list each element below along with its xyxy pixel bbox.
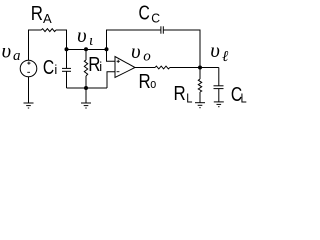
svg-text:o: o (150, 76, 156, 91)
wire C_C riser from input node (107, 30, 161, 50)
wire C_i branch upper (66, 50, 68, 69)
node v_i wire (67, 49, 107, 51)
wire R_A right end down to input node (56, 30, 67, 50)
wire R_i branch lower (85, 76, 87, 88)
op-amp triangle (115, 57, 135, 78)
op-amp - input mark (117, 71, 120, 73)
resistor R_o (155, 66, 170, 69)
svg-text:υ: υ (77, 23, 87, 47)
capacitor C_i (62, 67, 71, 69)
ground (R_L) (195, 103, 205, 108)
svg-text:a: a (13, 48, 21, 64)
source - sign (27, 71, 30, 73)
svg-text:υ: υ (131, 39, 141, 63)
wire R_L to ground (199, 92, 201, 103)
voltage source v_a (20, 60, 37, 77)
resistor R_L (198, 79, 201, 92)
svg-text:R: R (139, 71, 151, 93)
svg-text:o: o (143, 49, 151, 65)
capacitor C_L (214, 85, 224, 87)
svg-text:L: L (186, 91, 192, 106)
node dot R_i top (84, 47, 88, 51)
wire R_o to load node (170, 67, 219, 69)
resistor R_A (41, 29, 56, 32)
svg-text:C: C (139, 3, 150, 25)
svg-text:C: C (151, 11, 160, 26)
node dot v_i at R_A (65, 47, 69, 51)
node dot amp input riser (105, 47, 109, 51)
wire source to ground (28, 77, 30, 103)
svg-text:R: R (174, 83, 186, 105)
svg-text:C: C (43, 57, 54, 79)
wire ground stem (85, 88, 87, 103)
ground (input side) (81, 103, 91, 108)
source + sign (28, 62, 30, 65)
svg-text:ι: ι (89, 33, 93, 49)
node dot ground bus (84, 86, 88, 90)
op-amp + input mark (117, 60, 119, 63)
svg-text:R: R (31, 3, 43, 25)
wire amp + input (107, 50, 116, 62)
wire R_L branch upper (199, 68, 201, 80)
ground (C_L) (214, 102, 224, 107)
wire C_L branch upper (218, 68, 220, 86)
wire C_C to output node (164, 30, 201, 68)
resistor R_i (84, 60, 87, 76)
svg-text:υ: υ (210, 38, 220, 62)
wire amp - input (107, 72, 115, 88)
svg-text:υ: υ (2, 38, 12, 62)
wire R_i branch upper (85, 50, 87, 61)
wire C_L to ground (218, 89, 220, 102)
ground (source) (24, 103, 34, 108)
capacitor C_C (160, 26, 162, 33)
node dot output v_l (198, 66, 202, 70)
svg-text:A: A (43, 11, 52, 26)
wire amp output (135, 67, 155, 69)
svg-text:ℓ: ℓ (222, 49, 228, 65)
svg-text:i: i (54, 62, 57, 77)
wire top-left from source to R_A (29, 30, 42, 61)
svg-text:i: i (99, 59, 102, 74)
svg-text:L: L (241, 90, 247, 105)
wire bottom-left ground bus (67, 87, 108, 89)
wire C_i branch lower (66, 71, 68, 88)
